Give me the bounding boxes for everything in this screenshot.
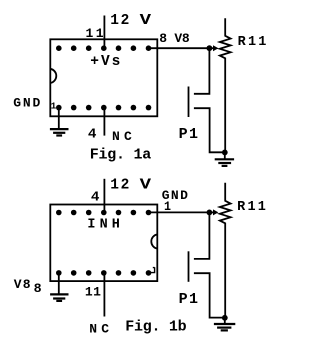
svg-text:GND: GND [13,95,40,110]
svg-text:8: 8 [34,281,42,296]
svg-text:V: V [140,13,152,29]
svg-text:12: 12 [110,13,129,29]
svg-text:+Vs: +Vs [90,54,120,70]
svg-text:4: 4 [91,189,100,205]
svg-text:NC: NC [89,321,109,336]
svg-text:R11: R11 [237,200,266,215]
svg-text:P1: P1 [179,291,198,308]
svg-text:V8: V8 [14,277,31,292]
svg-text:4: 4 [88,126,97,142]
svg-text:NC: NC [112,129,132,144]
svg-text:R11: R11 [238,35,267,50]
svg-text:12: 12 [110,177,129,193]
svg-text:P1: P1 [179,126,198,143]
svg-text:8 V8: 8 V8 [159,31,190,46]
svg-text:1: 1 [164,199,171,214]
svg-text:Fig. 1b: Fig. 1b [125,318,187,335]
svg-text:Fig. 1a: Fig. 1a [90,147,152,164]
svg-text:INH: INH [87,218,120,233]
svg-text:V: V [140,177,152,193]
svg-text:11: 11 [85,284,101,299]
svg-text:1: 1 [51,101,57,112]
